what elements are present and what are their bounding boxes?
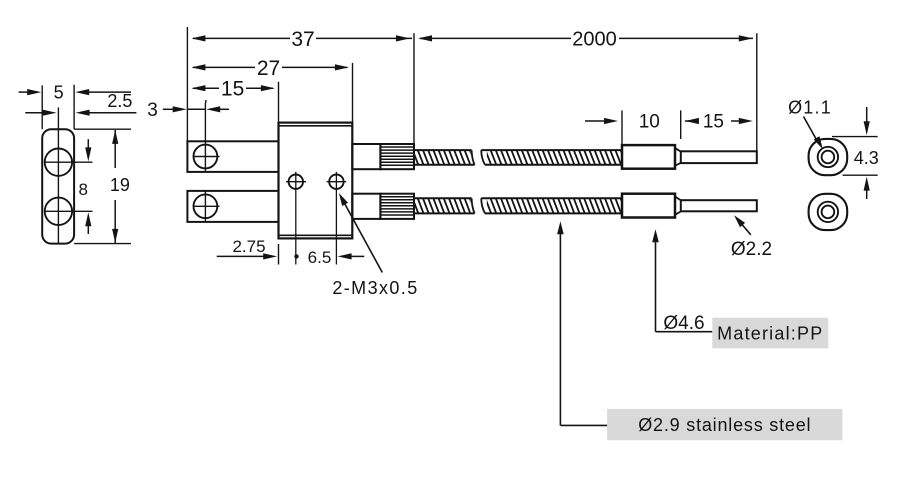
- svg-text:15: 15: [221, 78, 244, 101]
- svg-text:2.75: 2.75: [232, 237, 265, 256]
- svg-text:Material:PP: Material:PP: [717, 323, 823, 343]
- svg-text:27: 27: [257, 57, 280, 80]
- svg-text:10: 10: [639, 112, 660, 133]
- svg-text:4.3: 4.3: [854, 148, 879, 168]
- svg-text:Ø4.6: Ø4.6: [663, 313, 704, 334]
- svg-text:8: 8: [78, 180, 87, 199]
- svg-text:2-M3x0.5: 2-M3x0.5: [332, 278, 418, 298]
- svg-text:19: 19: [110, 175, 130, 195]
- svg-text:2000: 2000: [572, 28, 617, 50]
- svg-text:15: 15: [703, 112, 724, 133]
- svg-text:3: 3: [147, 100, 158, 121]
- svg-text:Ø2.2: Ø2.2: [731, 239, 772, 260]
- svg-text:37: 37: [291, 28, 314, 51]
- svg-text:6.5: 6.5: [308, 248, 332, 267]
- svg-text:Ø2.9 stainless steel: Ø2.9 stainless steel: [638, 415, 811, 435]
- svg-text:5: 5: [54, 82, 64, 102]
- svg-text:Ø1.1: Ø1.1: [788, 97, 832, 117]
- svg-text:2.5: 2.5: [107, 91, 132, 111]
